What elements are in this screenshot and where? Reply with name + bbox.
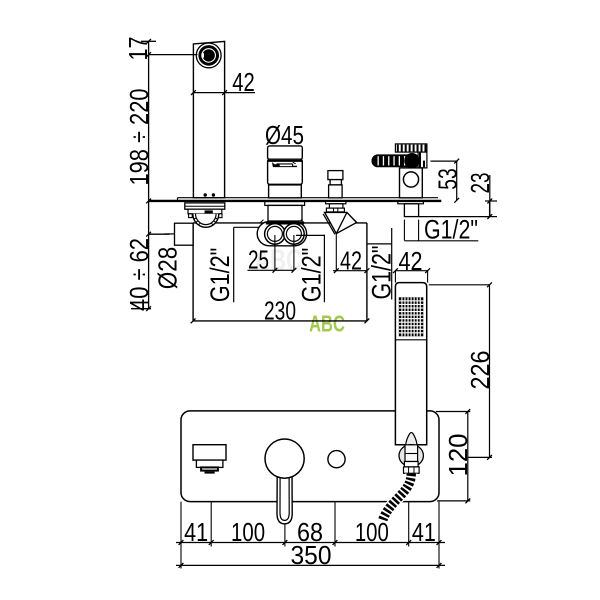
- dim 226: [429, 284, 490, 286]
- diverter neck: [330, 180, 341, 185]
- dim 53: [456, 161, 458, 200]
- dim 120: [467, 412, 469, 501]
- dim 17 leader: [149, 54, 198, 56]
- front panel: [181, 411, 439, 502]
- front lever stem: [277, 470, 292, 524]
- svg-text:120: 120: [443, 434, 473, 477]
- front lever knob: [265, 439, 304, 478]
- svg-text:42: 42: [340, 246, 362, 276]
- holder block: [400, 168, 423, 198]
- deck top line: [178, 197, 439, 199]
- diverter body: [329, 185, 343, 198]
- dim 230 line / box bottom: [193, 320, 367, 322]
- svg-text:17: 17: [123, 37, 153, 61]
- spout elbow: [193, 214, 219, 227]
- cartridge body lower: [269, 185, 302, 198]
- svg-text:40 ÷ 62: 40 ÷ 62: [124, 238, 154, 311]
- label G1/2 shower outlet: [405, 240, 479, 242]
- shower hose: [382, 474, 411, 522]
- holder flange: [398, 202, 424, 204]
- diverter elbow cone: [325, 212, 357, 233]
- dim 42 spout: [193, 92, 255, 94]
- shower head grid: [399, 297, 424, 336]
- spout aerator circle: [196, 43, 221, 68]
- dim 23: [489, 175, 491, 217]
- label G1/2 spout: [233, 227, 235, 302]
- inlet circle left: [265, 224, 286, 245]
- dim line vertical left: [148, 41, 150, 308]
- holder knurled top: [395, 144, 427, 152]
- svg-text:53: 53: [433, 168, 463, 190]
- svg-text:G1/2": G1/2": [205, 248, 235, 303]
- cartridge body upper: [268, 159, 303, 184]
- dim 350: [176, 564, 445, 566]
- cartridge flange: [265, 202, 305, 206]
- diverter knob: [328, 171, 343, 180]
- spout feet: [189, 214, 193, 218]
- svg-text:Ø28: Ø28: [153, 247, 183, 290]
- diverter stem: [329, 204, 343, 208]
- svg-text:42: 42: [232, 67, 255, 97]
- svg-text:350: 350: [291, 540, 332, 570]
- bottom extension lines: [180, 502, 182, 569]
- shower bracket bulb: [399, 445, 423, 467]
- svg-text:23: 23: [465, 173, 495, 194]
- dim chain 41 100 68 100 41: [176, 542, 445, 544]
- deck screws: [204, 193, 207, 196]
- dim 25: [274, 235, 276, 270]
- cartridge stem: [268, 205, 302, 221]
- body box: [192, 223, 194, 321]
- cartridge housing: [257, 222, 306, 246]
- svg-text:G1/2": G1/2": [367, 246, 397, 300]
- svg-text:198 ÷ 220: 198 ÷ 220: [124, 89, 154, 186]
- dim O28 tick: [165, 233, 175, 235]
- svg-text:G1/2": G1/2": [297, 248, 327, 303]
- front diverter knob: [328, 451, 345, 468]
- shower head line: [395, 339, 426, 341]
- spout flange lower: [188, 209, 222, 214]
- diverter nut: [326, 208, 344, 212]
- diverter flange: [326, 201, 346, 203]
- svg-text:ABC: ABC: [309, 311, 345, 337]
- svg-text:41: 41: [412, 517, 436, 547]
- front spout: [193, 445, 226, 460]
- holder outlet circle: [403, 172, 418, 187]
- svg-text:25: 25: [248, 245, 269, 275]
- svg-text:100: 100: [231, 517, 265, 547]
- shower bracket clip: [405, 433, 417, 446]
- holder handle: [372, 154, 419, 167]
- spout flange: [185, 203, 225, 209]
- spout inlet pipe O28: [175, 223, 194, 245]
- svg-text:226: 226: [465, 351, 495, 390]
- cartridge cap: [268, 146, 303, 159]
- dim tick 40-62: [149, 233, 170, 235]
- spout column: [193, 41, 224, 197]
- holder knurl side: [418, 152, 427, 168]
- shower nut: [404, 462, 418, 467]
- svg-text:230: 230: [264, 296, 296, 326]
- label G1/2 inlets: [323, 235, 325, 303]
- svg-text:41: 41: [184, 517, 208, 547]
- dim 42 shower extensions: [403, 220, 405, 241]
- shower head: [395, 283, 426, 445]
- wall line: [149, 200, 442, 202]
- cartridge lever slot: [272, 162, 280, 167]
- shower handle end: [405, 445, 418, 462]
- holder stub: [404, 204, 418, 217]
- dim 42 diverter: [335, 234, 337, 271]
- label G1/2 diverter outlet: [391, 228, 393, 300]
- svg-text:G1/2": G1/2": [424, 215, 478, 245]
- inlet circle right: [284, 224, 305, 245]
- shower nut 2: [404, 467, 420, 473]
- deck right ledge: [419, 216, 490, 218]
